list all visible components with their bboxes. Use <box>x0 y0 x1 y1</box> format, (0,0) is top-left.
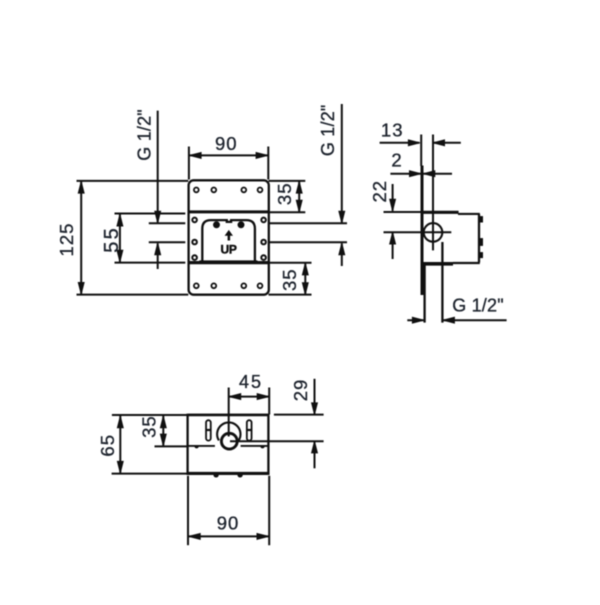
svg-text:35: 35 <box>279 268 300 291</box>
svg-text:UP: UP <box>221 243 237 257</box>
svg-text:65: 65 <box>97 434 118 457</box>
svg-text:35: 35 <box>139 415 160 438</box>
svg-text:90: 90 <box>217 512 240 533</box>
svg-text:35: 35 <box>274 183 295 206</box>
svg-text:125: 125 <box>56 223 77 257</box>
svg-text:22: 22 <box>369 180 390 203</box>
svg-text:55: 55 <box>101 226 123 253</box>
svg-text:90: 90 <box>215 133 238 154</box>
svg-text:29: 29 <box>290 379 311 402</box>
svg-text:2: 2 <box>391 150 402 171</box>
svg-text:13: 13 <box>381 119 404 140</box>
svg-text:G 1/2": G 1/2" <box>134 109 154 161</box>
svg-text:G 1/2": G 1/2" <box>318 104 338 156</box>
svg-text:45: 45 <box>239 372 263 392</box>
svg-text:G 1/2": G 1/2" <box>452 295 504 315</box>
